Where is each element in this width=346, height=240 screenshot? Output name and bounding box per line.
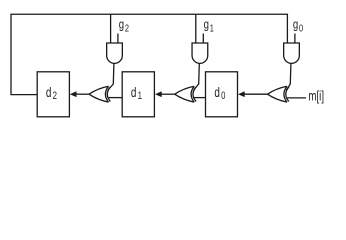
svg-text:2: 2 — [125, 23, 129, 34]
wire rail drop to g2 left input — [110, 14, 112, 43]
svg-text:d: d — [131, 84, 137, 100]
label d0 — [214, 84, 225, 102]
arrowhead into d0 — [238, 91, 245, 97]
wire g1 label stub — [202, 34, 204, 44]
wire XOR X3 output to d0 input — [244, 93, 268, 95]
wire g1 AND output down to XOR X2 upper input — [194, 63, 200, 90]
svg-text:g: g — [204, 18, 209, 32]
label g1 — [204, 18, 214, 34]
wire g2 label stub — [117, 34, 119, 44]
wire d0 output to XOR X2 lower input — [195, 97, 206, 99]
AND gate U2 (coefficient g1) — [192, 43, 208, 63]
svg-text:0: 0 — [221, 90, 225, 103]
AND gate U1 (coefficient g2) — [107, 43, 123, 63]
register d0 box — [206, 72, 238, 117]
wire m[i] input to XOR X3 lower input — [287, 97, 306, 99]
XOR gate X3 (output feeds d0, input m[i]) — [268, 86, 289, 102]
svg-text:d: d — [214, 84, 220, 100]
arrowhead into d1 — [155, 91, 162, 97]
svg-text:g: g — [119, 18, 124, 32]
label g0 — [293, 18, 303, 34]
XOR gate X2 (output feeds d1) — [175, 86, 196, 102]
svg-text:0: 0 — [299, 23, 303, 34]
AND gate U3 (coefficient g0) — [284, 43, 300, 63]
wire d1 output to XOR X1 lower input — [109, 97, 122, 99]
svg-text:1: 1 — [138, 90, 142, 103]
wire g0 AND output down to XOR X3 upper input — [287, 63, 291, 90]
wire XOR X1 output to d2 input — [76, 93, 89, 95]
label g2 — [119, 18, 129, 34]
wire rail drop to g1 left input — [195, 14, 197, 43]
svg-text:g: g — [293, 18, 298, 32]
label m[i] — [308, 89, 324, 104]
wire g0 label stub — [294, 34, 296, 44]
wire feedback loop from d2 output around left side and top rail to g0 — [11, 14, 287, 94]
arrowhead into d2 — [70, 91, 77, 97]
label d1 — [131, 84, 142, 102]
wire XOR X2 output to d1 input — [161, 93, 175, 95]
svg-text:m[i]: m[i] — [308, 89, 324, 104]
register d2 box — [37, 72, 69, 117]
wire g2 AND output down to XOR X1 upper input — [108, 63, 114, 90]
XOR gate X1 (output feeds d2) — [89, 86, 110, 102]
svg-text:2: 2 — [53, 90, 57, 103]
register d1 box — [122, 72, 154, 117]
label d2 — [46, 84, 57, 102]
svg-text:1: 1 — [210, 23, 214, 34]
svg-text:d: d — [46, 84, 52, 100]
